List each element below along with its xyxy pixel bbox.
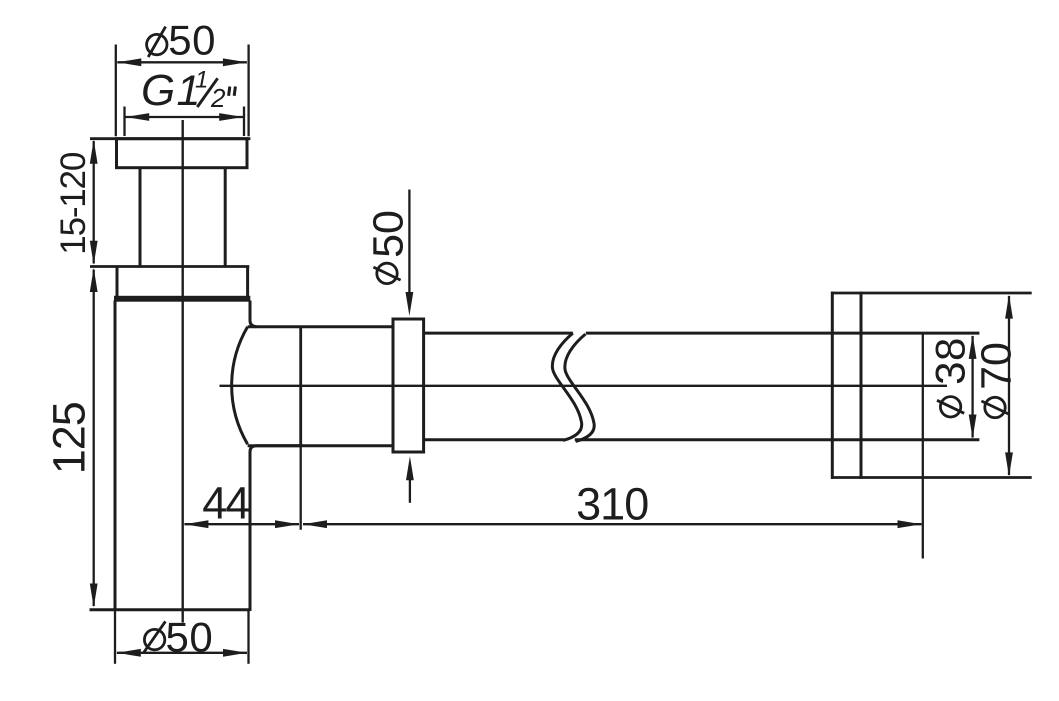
svg-text:310: 310 [576,479,648,530]
dimension ø38: label [927,337,974,417]
dimension 15-120: dimension line with arrows [90,140,98,265]
svg-text:44: 44 [202,477,249,528]
svg-text:50: 50 [168,16,216,63]
svg-text:70: 70 [973,342,1021,390]
svg-text:50: 50 [166,614,214,661]
dimension ø50 top: dimension line with arrows [117,58,247,66]
pipe break squiggle right [565,334,594,441]
ball end cap arc [232,327,248,444]
pipe from nut to break [425,333,573,440]
nut callout ø50: label [364,210,412,284]
svg-text:50: 50 [364,210,412,258]
svg-text:G: G [141,66,175,115]
joint line [299,326,302,530]
dimension ø50 top: extension lines [116,45,249,137]
compression nut [393,319,424,452]
outlet tube upper line [248,325,392,328]
dimension 310: extension line right [922,334,924,559]
dimension ø50 bottom: dimension line with arrows [117,649,247,657]
vertical center line [181,120,183,623]
dimension ø50 top: label [147,16,216,63]
trap body cup [90,301,300,612]
outlet tube lower line [248,444,392,447]
pipe from break to wall, extends as ø38 extension [575,333,980,440]
svg-text:15-120: 15-120 [54,152,93,255]
top inlet flange [90,139,250,168]
dimension G 1 1/2": label [141,66,235,115]
dimension 44: dimension line with arrows [184,520,299,528]
gasket bar [114,296,250,302]
nut callout ø50: lower leader arrow [406,456,414,503]
svg-text:1: 1 [195,66,208,93]
svg-text:38: 38 [927,337,974,385]
inlet tube [140,168,225,267]
dimension G 1 1/2": dimension line with arrows [125,113,243,121]
pipe break squiggle left [552,333,581,440]
svg-text:125: 125 [43,402,94,474]
dimension ø70: label [973,342,1021,418]
horizontal center line [220,385,948,387]
dimension ø50 bottom: label [144,614,213,661]
dimension 310: dimension line with arrows [303,520,922,528]
dimension 125: dimension line with arrows [90,268,98,608]
dimension G 1 1/2": extension lines [125,107,245,137]
dimension ø70: dimension line with arrows [1005,295,1013,477]
lower flange of inlet [90,267,249,297]
dimension ø50 bottom: extension lines [115,611,249,664]
dimension ø38: dimension line with arrows [969,335,977,439]
wall flange [831,292,1032,479]
nut callout ø50: upper leader arrow [406,190,414,317]
